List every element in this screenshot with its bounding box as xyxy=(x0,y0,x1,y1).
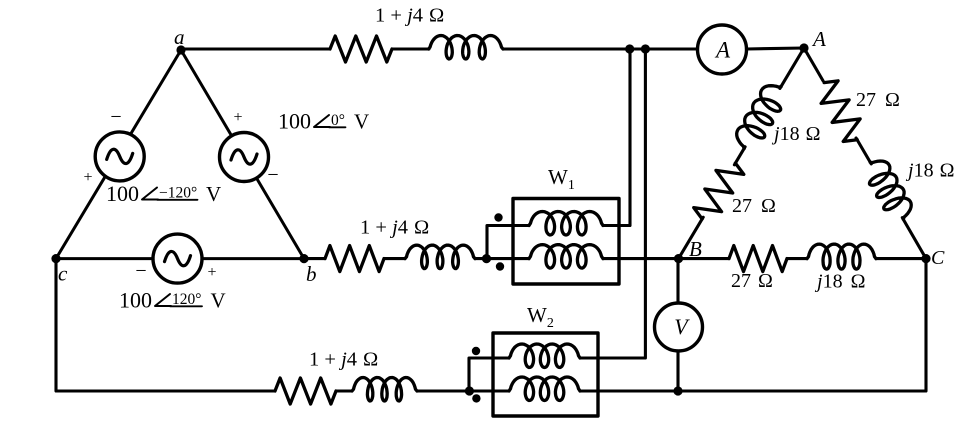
svg-text:100: 100 xyxy=(106,181,139,206)
polarity dot W2 potential coil xyxy=(472,347,480,355)
junction dot to W2 potential lead xyxy=(641,44,650,53)
wire: W2 current coil to V junction xyxy=(580,389,678,392)
source Vbc 100&#8736;120&#176; V (bottom) xyxy=(153,234,202,283)
voltmeter V xyxy=(655,303,703,351)
wire: W1 junction to W1 current coil xyxy=(487,257,530,260)
svg-text:V: V xyxy=(211,289,226,313)
resistor 27 ohm (branch A-B) xyxy=(691,156,747,225)
inductor j4 ohm middle line xyxy=(405,245,475,269)
svg-text:A: A xyxy=(714,38,731,63)
wire: W2 potential coil left lead and tap xyxy=(469,358,509,391)
wattmeter W2 box xyxy=(493,333,598,416)
svg-text:a: a xyxy=(174,25,185,49)
inductor j18 ohm (branch B-C) xyxy=(807,244,876,269)
svg-text:B: B xyxy=(689,237,702,261)
svg-text:27 Ω: 27 Ω xyxy=(856,89,900,111)
svg-text:1 + j4Ω: 1 + j4Ω xyxy=(309,349,378,371)
resistor 1 ohm bottom line xyxy=(275,378,336,404)
svg-text:100: 100 xyxy=(119,288,152,313)
junction dot to W1 potential lead xyxy=(625,44,634,53)
wire: node a to node c (source delta left side) xyxy=(56,50,181,259)
polarity dot W2 current coil xyxy=(472,394,480,402)
inductor j4 ohm bottom line xyxy=(352,378,417,402)
wattmeter W1 box xyxy=(513,199,619,285)
resistor 1 ohm middle line xyxy=(325,246,384,272)
resistor 1 ohm top line xyxy=(330,36,392,62)
wire: resistor to inductor (bottom line) xyxy=(336,389,352,392)
svg-text:−: − xyxy=(110,106,121,128)
source Vca 100&#8736;-120&#176; V (left) xyxy=(95,132,144,181)
wire: inductor to W2 junction xyxy=(417,389,469,392)
wire: resistor to inductor (branch B-C) xyxy=(787,257,807,260)
wire: resistor to inductor (branch A-C) xyxy=(856,138,871,164)
wire: c down and along bottom to resistor xyxy=(56,259,275,391)
wire: W2 potential coil right lead up to top line xyxy=(580,49,645,358)
inductor j18 ohm (branch A-B) xyxy=(731,79,791,154)
wire: inductor to node C (branch B-C) xyxy=(876,257,926,260)
wire: inductor to resistor (branch A-B) xyxy=(734,147,745,165)
wire: inductor to node C (branch A-C) xyxy=(902,218,926,259)
resistor 27 ohm (branch A-C) xyxy=(813,76,869,146)
svg-text:−: − xyxy=(135,260,146,282)
node a junction dot xyxy=(176,45,185,54)
node b junction dot xyxy=(299,254,308,263)
svg-text:−: − xyxy=(267,164,278,186)
wattmeter W2 potential coil xyxy=(509,344,580,368)
svg-text:V: V xyxy=(206,182,221,206)
wattmeter W2 current coil xyxy=(509,377,580,401)
svg-text:j18 Ω: j18 Ω xyxy=(771,123,820,145)
ammeter A xyxy=(698,25,747,74)
wire: node a to node b (source delta right side) xyxy=(181,50,304,259)
wire: a to resistor (top line) xyxy=(181,47,330,50)
inductor j18 ohm (branch A-C) xyxy=(860,155,916,225)
junction dot at W2 tap xyxy=(465,386,474,395)
wire: ammeter to node A xyxy=(747,48,805,49)
svg-text:A: A xyxy=(811,27,826,51)
svg-text:1 + j4Ω: 1 + j4Ω xyxy=(375,5,444,27)
svg-text:j18 Ω: j18 Ω xyxy=(814,271,865,293)
svg-text:V: V xyxy=(354,110,369,134)
wire: W1 current coil to node B xyxy=(603,257,679,260)
node A junction dot xyxy=(799,43,808,52)
svg-text:27 Ω: 27 Ω xyxy=(731,270,773,292)
svg-text:c: c xyxy=(58,262,68,286)
svg-text:W1: W1 xyxy=(548,165,575,193)
wire: W1 potential coil left lead and tap xyxy=(487,226,529,259)
wire: resistor to inductor (middle line) xyxy=(384,257,405,260)
polarity dot W1 potential coil xyxy=(494,213,502,221)
wire: W2 junction to W2 current coil xyxy=(469,389,509,392)
wire: voltmeter down to bottom line xyxy=(676,351,679,391)
svg-text:+: + xyxy=(233,109,242,126)
wire: node c to node b (source delta bottom side) xyxy=(56,257,304,260)
wire: inductor to W1 junction xyxy=(475,257,487,260)
wire: node A to 27 resistor (branch A-C) xyxy=(804,48,823,81)
wire: resistor to node B (branch A-B) xyxy=(679,217,704,258)
wire: node A to j18 inductor (branch A-B) xyxy=(780,48,804,88)
node c junction dot xyxy=(51,254,60,263)
wattmeter W1 potential coil xyxy=(529,212,603,236)
svg-text:+: + xyxy=(83,169,92,186)
junction dot at voltmeter bottom xyxy=(673,386,682,395)
node C junction dot xyxy=(921,254,930,263)
wire: node B down to voltmeter xyxy=(676,259,679,303)
svg-text:1 + j4Ω: 1 + j4Ω xyxy=(360,217,429,239)
svg-text:27 Ω: 27 Ω xyxy=(732,195,776,217)
junction dot at W1 tap xyxy=(482,254,491,263)
wire: bottom line to C corner and up to node C xyxy=(678,259,926,391)
wire: b to resistor (middle line) xyxy=(304,257,325,260)
svg-text:j18 Ω: j18 Ω xyxy=(905,160,954,182)
wire: node B to 27 resistor (branch B-C) xyxy=(679,257,730,260)
resistor 27 ohm (branch B-C) xyxy=(729,246,787,272)
svg-text:b: b xyxy=(306,262,317,286)
source Vab 100&#8736;0&#176; V (right) xyxy=(220,133,269,182)
svg-text:W2: W2 xyxy=(527,303,554,331)
svg-text:C: C xyxy=(931,247,945,269)
svg-text:+: + xyxy=(207,264,216,281)
polarity dot W1 current coil xyxy=(496,262,504,270)
node B junction dot xyxy=(674,254,683,263)
svg-text:100: 100 xyxy=(278,109,311,134)
wire: inductor to ammeter (top line) xyxy=(503,47,698,50)
wire: W1 potential coil right lead up to top line xyxy=(603,49,630,226)
wattmeter W1 current coil xyxy=(529,245,603,269)
inductor j4 ohm top line xyxy=(429,36,504,60)
wire: resistor to inductor (top line) xyxy=(392,47,429,50)
